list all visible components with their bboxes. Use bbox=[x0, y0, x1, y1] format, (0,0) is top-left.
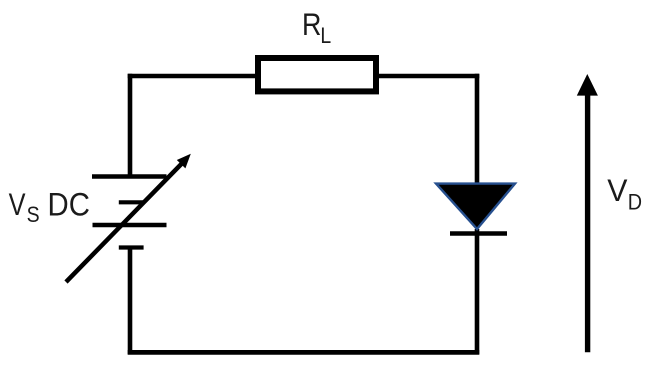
diode cathode bar bbox=[450, 231, 507, 236]
resistor RL body bbox=[258, 58, 376, 91]
wire: right vertical upper segment bbox=[475, 74, 480, 185]
wire: top-left horizontal segment bbox=[128, 74, 258, 79]
VD arrow shaft bbox=[585, 92, 590, 352]
wire: top-right horizontal segment bbox=[376, 74, 479, 79]
svg-text:V: V bbox=[607, 172, 627, 208]
wire: bottom horizontal segment bbox=[128, 350, 480, 355]
battery VS: plate 2 short bbox=[119, 200, 144, 204]
VD arrowhead bbox=[577, 74, 598, 96]
svg-text:S: S bbox=[27, 202, 40, 227]
svg-text:R: R bbox=[302, 6, 321, 42]
battery VS: plate 3 long bbox=[93, 223, 167, 227]
diode D triangle (anode) bbox=[436, 184, 515, 229]
wire: left vertical lower segment bbox=[128, 248, 133, 355]
battery VS: plate 1 long (top) bbox=[92, 174, 167, 178]
variable-source diagonal arrow shaft bbox=[66, 163, 182, 282]
wire: left vertical upper segment bbox=[128, 74, 133, 177]
wire: right vertical lower segment bbox=[475, 229, 480, 354]
svg-text:V: V bbox=[9, 186, 26, 222]
battery VS: plate 4 short (bottom) bbox=[119, 245, 144, 249]
svg-text:L: L bbox=[320, 23, 331, 48]
svg-text:D: D bbox=[628, 190, 642, 215]
svg-text:DC: DC bbox=[48, 187, 90, 223]
variable-source diagonal arrowhead bbox=[177, 154, 191, 169]
